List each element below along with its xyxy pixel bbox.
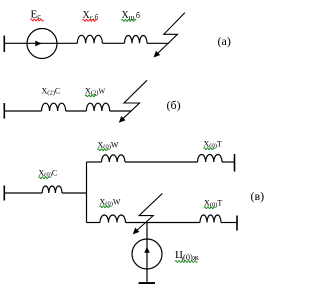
svg-text:(б): (б) <box>167 98 181 112</box>
svg-text:(в): (в) <box>251 189 265 203</box>
svg-text:(а): (а) <box>218 34 231 48</box>
svg-text:Ц(0)ж: Ц(0)ж <box>175 249 199 262</box>
svg-text:Хш,б: Хш,б <box>122 10 140 22</box>
svg-text:Х(0)С: Х(0)С <box>39 169 58 179</box>
svg-text:Х(0)Т: Х(0)Т <box>204 199 222 209</box>
svg-text:Х(2)С: Х(2)С <box>42 87 61 97</box>
svg-text:Х(0)Т: Х(0)Т <box>204 140 222 150</box>
